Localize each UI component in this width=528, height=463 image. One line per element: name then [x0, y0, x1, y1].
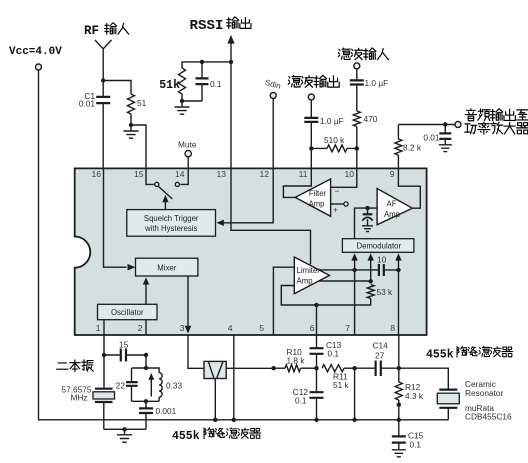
svg-text:3: 3	[180, 323, 185, 333]
capacitor 15	[102, 340, 148, 362]
wire oscillator to mixer	[143, 277, 149, 304]
power terminal Vcc	[9, 46, 62, 70]
svg-text:1.0 µF: 1.0 µF	[365, 78, 389, 88]
op-amp limiter amp	[294, 257, 329, 294]
svg-text:22: 22	[116, 381, 126, 391]
wire pin 1 to crystal	[103, 335, 105, 388]
pin 7 label	[345, 323, 350, 333]
wire pin 5 to limiter amp input	[273, 267, 294, 335]
svg-text:14: 14	[175, 169, 185, 179]
svg-text:51 k: 51 k	[333, 380, 350, 390]
svg-text:51: 51	[137, 98, 147, 108]
wire pin 12 to squelch trigger input	[216, 168, 273, 226]
wire pin 16 to mixer input	[104, 168, 136, 270]
resistor R11 51k	[322, 365, 357, 390]
terminal Mute	[178, 140, 197, 169]
terminal Sdin pin 12	[264, 78, 282, 169]
pin 14 label	[175, 169, 185, 179]
node filter amp noninverting input stub	[331, 202, 349, 215]
svg-text:10: 10	[377, 255, 387, 265]
wire oscillator ground run	[104, 427, 146, 431]
svg-text:C14: C14	[373, 341, 389, 351]
RSSI output arrow	[190, 17, 251, 62]
wire Vcc supply rail	[39, 70, 449, 420]
label second local oscillator	[57, 360, 94, 372]
capacitor 0.001	[139, 401, 177, 429]
resistor 51k RSSI load	[159, 62, 231, 103]
ceramic filter FL1 455k	[204, 361, 226, 378]
resistor R12 4.3k	[395, 335, 424, 422]
crystal 57.6575 MHz	[62, 385, 115, 430]
svg-text:Amp: Amp	[308, 200, 325, 209]
wire 51 junction to pin 15	[131, 125, 146, 168]
pin 10 label	[344, 169, 354, 179]
svg-text:1: 1	[96, 323, 101, 333]
svg-text:Amp: Amp	[384, 210, 401, 219]
wire pin 7 internal to demodulator	[351, 253, 357, 335]
svg-text:4.3 k: 4.3 k	[405, 391, 424, 401]
svg-text:510 k: 510 k	[324, 135, 345, 145]
ground oscillator	[117, 429, 132, 442]
oscillator block	[98, 304, 158, 319]
pin 13 label	[216, 169, 226, 179]
pin 3 label	[180, 323, 185, 333]
wire pin 3 to ceramic filter	[188, 335, 204, 368]
svg-text:11: 11	[299, 169, 308, 179]
svg-text:0.1: 0.1	[210, 79, 222, 89]
pin 12 label	[259, 169, 269, 179]
resistor 8.2k audio	[395, 125, 422, 169]
capacitor C14 27	[355, 341, 401, 377]
svg-text:CDB455C16: CDB455C16	[465, 412, 512, 422]
svg-text:−: −	[335, 186, 340, 196]
antenna RF input	[84, 23, 129, 81]
svg-text:27: 27	[375, 351, 385, 361]
svg-text:1.8 k: 1.8 k	[287, 356, 306, 366]
op-amp U1 IC body MC3371 outline with pin-1 notch	[75, 168, 427, 335]
capacitor 22 tank	[116, 368, 138, 401]
svg-text:0.33: 0.33	[166, 381, 183, 391]
wire pin 1 internal	[103, 320, 105, 335]
pin 4 label	[228, 323, 233, 333]
switch mute pins 15-14	[146, 168, 188, 199]
svg-text:with Hysteresis: with Hysteresis	[144, 224, 198, 233]
pin 2 label	[138, 323, 143, 333]
label 455k ceramic filter right	[426, 346, 513, 361]
svg-text:Mixer: Mixer	[157, 263, 176, 272]
wire ceramic filter output to pin 5 node	[226, 366, 276, 370]
node RF input junction	[101, 78, 105, 82]
pin 8 label	[390, 323, 395, 333]
capacitor 1.0uF filter input	[338, 48, 388, 111]
resistor 470	[353, 111, 377, 168]
label audio output to power amplifier	[465, 109, 528, 134]
resistor 51	[103, 81, 146, 128]
wire pin 7 to supply bus	[352, 368, 356, 422]
wire limiter output lower tap	[319, 279, 373, 283]
svg-text:0.01: 0.01	[423, 133, 440, 143]
capacitor 10 internal	[377, 255, 401, 277]
ground below 51	[124, 125, 139, 138]
svg-text:Limiter: Limiter	[297, 266, 321, 275]
op-amp filter amp	[295, 179, 330, 216]
svg-text:0.1: 0.1	[295, 396, 307, 406]
svg-text:Sdin: Sdin	[264, 78, 282, 91]
pin 16 label	[91, 169, 101, 179]
svg-text:4: 4	[228, 323, 233, 333]
svg-text:Oscillator: Oscillator	[111, 308, 144, 317]
svg-text:455k: 455k	[172, 430, 200, 443]
capacitor C1 0.01	[79, 81, 110, 169]
svg-text:13: 13	[216, 169, 226, 179]
capacitor 0.1 RSSI	[182, 60, 233, 101]
wire pin 4 to supply bus	[232, 335, 236, 422]
squelch trigger block	[127, 210, 216, 237]
resistor 510k	[309, 135, 357, 152]
pin 5 label	[259, 323, 264, 333]
demodulator block	[342, 239, 414, 253]
wire ceramic filter ground lead	[213, 379, 217, 422]
svg-text:9: 9	[390, 169, 395, 179]
svg-text:Amp: Amp	[297, 276, 314, 285]
svg-text:0.1: 0.1	[410, 440, 422, 450]
wire 53k top to demodulator arrow	[368, 253, 374, 281]
wire pin 13 to limiter amp RSSI tap	[231, 168, 311, 264]
pin 15 label	[134, 169, 144, 179]
svg-text:0.01: 0.01	[79, 99, 96, 109]
wire pin 10 to filter amp inverting input	[331, 168, 357, 196]
svg-text:0.1: 0.1	[328, 349, 340, 359]
inductor 0.33 tank	[132, 368, 183, 401]
wire squelch trigger to switch arrow	[162, 195, 168, 210]
svg-text:0.001: 0.001	[156, 406, 177, 416]
wire audio output	[398, 122, 461, 128]
wire RSSI to pin 13	[230, 62, 232, 168]
capacitor AF amp input internal	[362, 208, 373, 232]
capacitor C12 0.1	[293, 368, 324, 422]
svg-text:Mute: Mute	[178, 140, 197, 150]
wire limiter output to demodulator	[319, 268, 379, 272]
wire pin 2 to tank	[144, 355, 148, 370]
svg-text:Vcc=4.0V: Vcc=4.0V	[9, 46, 62, 58]
svg-text:Filter: Filter	[309, 189, 327, 198]
terminal filter output pin 11	[288, 75, 343, 168]
svg-text:15: 15	[119, 340, 129, 350]
svg-text:470: 470	[364, 114, 378, 124]
resistor R10 1.8k	[274, 347, 317, 372]
svg-text:RF: RF	[84, 24, 99, 38]
resistor 53k internal	[367, 285, 393, 299]
svg-text:2: 2	[138, 323, 143, 333]
svg-text:AF: AF	[387, 200, 397, 209]
svg-text:16: 16	[91, 169, 101, 179]
arrow tuning inside tank	[148, 373, 154, 397]
wire pin 2 internal	[145, 320, 147, 335]
svg-text:10: 10	[344, 169, 354, 179]
wire pin 11 to filter amp output	[283, 168, 311, 197]
svg-text:8.2 k: 8.2 k	[403, 143, 422, 153]
svg-text:53 k: 53 k	[377, 287, 394, 297]
pin 11 label	[299, 169, 308, 179]
svg-text:51k: 51k	[159, 79, 180, 92]
svg-text:MHz: MHz	[70, 393, 87, 403]
svg-text:RSSI: RSSI	[190, 18, 224, 34]
pin 9 label	[390, 169, 395, 179]
svg-text:Squelch Trigger: Squelch Trigger	[144, 214, 199, 223]
svg-text:12: 12	[259, 169, 269, 179]
svg-text:Resonator: Resonator	[465, 388, 504, 398]
svg-text:7: 7	[345, 323, 350, 333]
label 455k ceramic filter bottom	[172, 428, 261, 443]
capacitor C13 0.1	[310, 335, 342, 370]
svg-text:455k: 455k	[426, 349, 454, 362]
wire pin 8 internal to demodulator	[395, 253, 401, 335]
svg-text:Demodulator: Demodulator	[356, 242, 401, 251]
node pin 6 feedback junction	[314, 303, 318, 335]
op-amp AF amp	[377, 189, 412, 225]
ground below 51k	[175, 101, 190, 114]
svg-text:+: +	[333, 206, 338, 215]
svg-text:1.0 µF: 1.0 µF	[320, 116, 344, 126]
pin 6 label	[310, 323, 315, 333]
wire mixer output to pin 3	[185, 276, 192, 334]
ceramic resonator muRata CDB455C16	[399, 368, 512, 421]
capacitor 0.01 audio	[423, 125, 451, 152]
node tank bottom	[144, 399, 148, 403]
pin 1 label	[96, 323, 101, 333]
wire demodulator to AF amp input	[355, 206, 378, 239]
wire AF amp output to pin 9	[398, 168, 420, 208]
svg-text:5: 5	[259, 323, 264, 333]
svg-text:6: 6	[310, 323, 315, 333]
capacitor C15 0.1	[392, 420, 424, 457]
mixer block	[136, 258, 198, 276]
wire limiter amp feedback input	[281, 286, 370, 306]
svg-text:15: 15	[134, 169, 144, 179]
svg-text:8: 8	[390, 323, 395, 333]
